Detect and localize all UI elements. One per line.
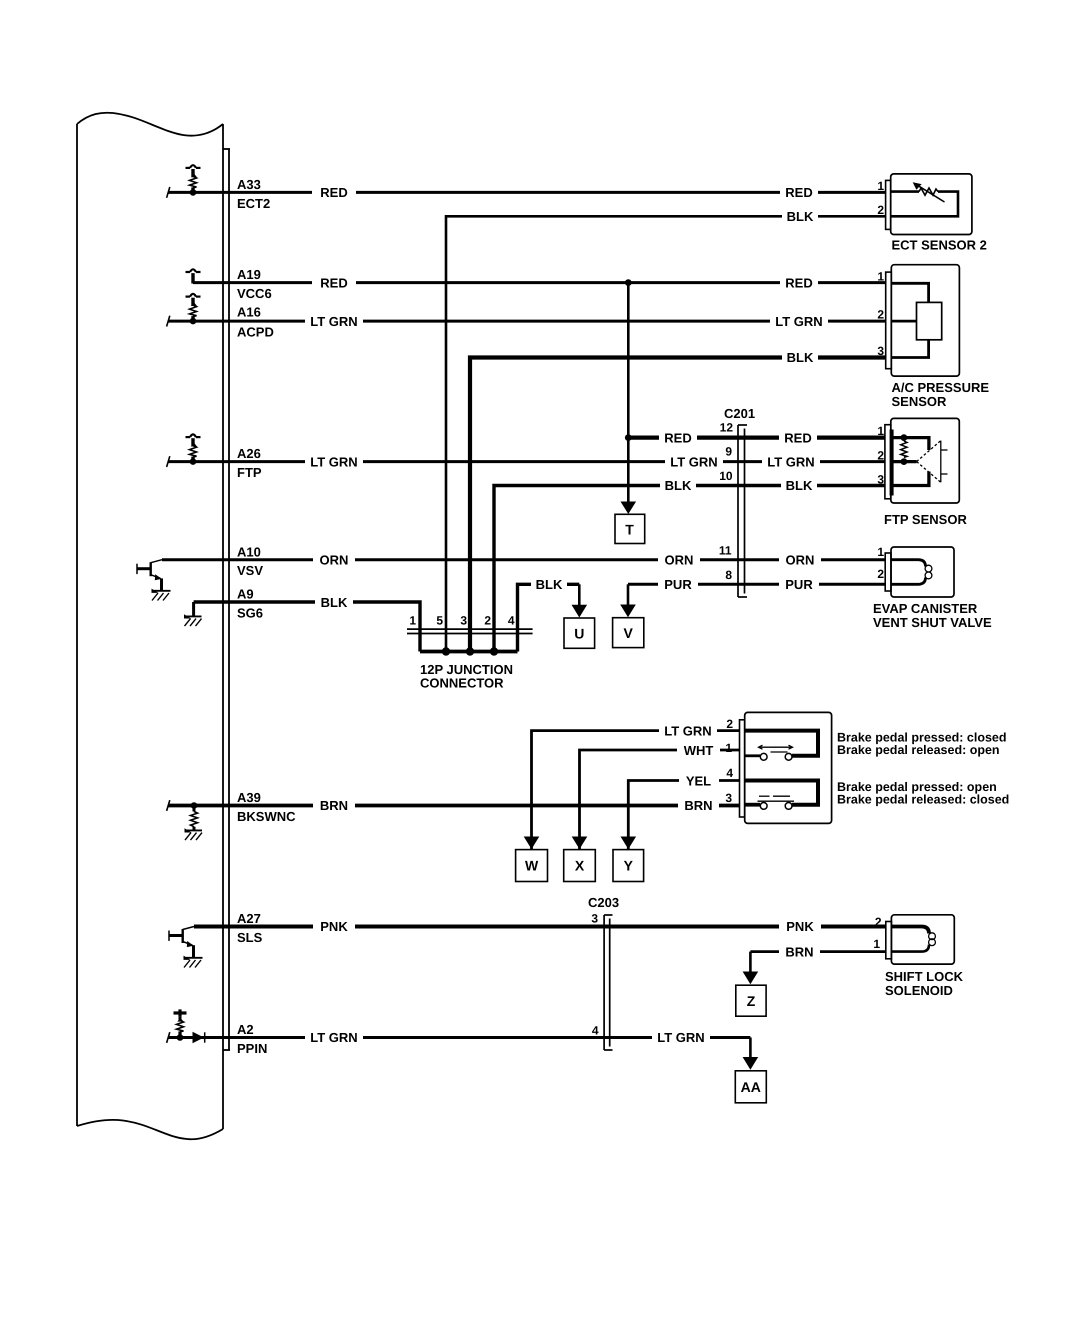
svg-text:LT GRN: LT GRN bbox=[310, 1030, 357, 1045]
EVAP CANISTER VENT SHUT VALVE body bbox=[891, 547, 954, 597]
FTP internal wire pin1 bbox=[893, 438, 929, 450]
wire label RED (left, A19) bbox=[312, 275, 356, 290]
wire label RED (left) bbox=[312, 185, 356, 200]
SHIFT LOCK SOLENOID connector bracket bbox=[886, 922, 892, 959]
svg-text:RED: RED bbox=[784, 430, 811, 445]
svg-text:PUR: PUR bbox=[785, 577, 813, 592]
wire label BLK (left of C201) bbox=[660, 478, 696, 493]
wire label WHT bbox=[677, 743, 720, 758]
wire label ORN (right of C201) bbox=[779, 552, 821, 567]
riser pin 4 of junction connector up to BLK/U bbox=[518, 584, 580, 651]
svg-text:1: 1 bbox=[877, 179, 884, 193]
wire label RED (right of C201) bbox=[779, 430, 817, 445]
arrow into Z bbox=[743, 972, 759, 985]
svg-text:1: 1 bbox=[873, 937, 880, 951]
wire label LT GRN (brake) bbox=[659, 723, 717, 738]
arrow into W bbox=[524, 837, 540, 850]
svg-text:2: 2 bbox=[877, 567, 884, 581]
wire A9 SG6 BLK row into 12P junction connector pin 1 bbox=[194, 602, 420, 652]
switch 1 contacts bbox=[760, 753, 767, 760]
wire label ORN (left of C201) bbox=[658, 552, 700, 567]
svg-text:C203: C203 bbox=[588, 895, 619, 910]
page reference box V bbox=[613, 618, 644, 648]
page reference box T bbox=[615, 514, 645, 543]
svg-text:T: T bbox=[625, 521, 634, 537]
svg-text:2: 2 bbox=[877, 449, 884, 463]
svg-text:1: 1 bbox=[725, 741, 732, 755]
wire YEL row to brake switch pin 4 bbox=[628, 781, 739, 850]
svg-text:4: 4 bbox=[592, 1024, 599, 1038]
svg-text:BLK: BLK bbox=[321, 595, 348, 610]
page reference box Z bbox=[736, 985, 766, 1016]
wire label PNK (right) bbox=[779, 919, 821, 934]
arrow into V bbox=[620, 605, 636, 618]
svg-text:4: 4 bbox=[508, 614, 515, 628]
wire label PUR (right of C201) bbox=[779, 577, 819, 592]
junction dot A16 resistor/wire bbox=[190, 318, 197, 325]
ECT SENSOR 2 connector bracket bbox=[886, 180, 891, 229]
brake switch connector bracket bbox=[740, 720, 745, 817]
svg-text:9: 9 bbox=[725, 445, 732, 459]
svg-text:LT GRN: LT GRN bbox=[310, 314, 357, 329]
wire label BRN (right) bbox=[779, 944, 820, 959]
svg-text:BLK: BLK bbox=[787, 209, 814, 224]
internal pull-up resistor at A16 bbox=[186, 294, 201, 321]
wire A33 ECT2 RED row bbox=[168, 191, 886, 194]
junction node on A19 RED wire bbox=[625, 279, 632, 286]
svg-text:ORN: ORN bbox=[320, 552, 349, 567]
page reference box X bbox=[564, 850, 596, 882]
A/C PRESSURE SENSOR connector bracket bbox=[886, 272, 892, 369]
internal pull-up resistor and diode at A2 bbox=[174, 1009, 205, 1043]
wire pin3 to element (A/C sensor) bbox=[891, 340, 928, 358]
svg-text:SHIFT LOCK: SHIFT LOCK bbox=[885, 969, 964, 984]
svg-text:2: 2 bbox=[875, 915, 882, 929]
svg-text:2: 2 bbox=[484, 614, 491, 628]
internal driver transistor at A10 bbox=[137, 560, 162, 590]
svg-text:Z: Z bbox=[747, 993, 756, 1009]
page reference box AA bbox=[735, 1071, 766, 1103]
FTP SENSOR connector bracket bbox=[885, 425, 891, 499]
svg-text:ORN: ORN bbox=[665, 552, 694, 567]
arrow into U bbox=[572, 605, 588, 618]
svg-text:ACPD: ACPD bbox=[237, 325, 274, 340]
switch 2 contacts bbox=[760, 803, 767, 810]
wire label LT GRN (mid, left of C201) bbox=[665, 454, 723, 469]
switch 2 closed bar bbox=[758, 796, 795, 801]
svg-text:FTP: FTP bbox=[237, 465, 262, 480]
svg-text:A33: A33 bbox=[237, 177, 261, 192]
internal driver transistor at A27 bbox=[169, 927, 194, 958]
wire label LT GRN (right of C203) bbox=[652, 1030, 710, 1045]
svg-text:11: 11 bbox=[719, 544, 732, 558]
svg-text:VSV: VSV bbox=[237, 563, 263, 578]
ECM/PCM box (torn-edge outline) bbox=[77, 113, 223, 1140]
svg-text:A9: A9 bbox=[237, 587, 254, 602]
svg-text:RED: RED bbox=[320, 275, 347, 290]
svg-text:RED: RED bbox=[320, 185, 347, 200]
wire A27 SLS PNK row to C203 pin 3 and shift lock solenoid pin 2 bbox=[194, 925, 886, 929]
svg-text:LT GRN: LT GRN bbox=[657, 1030, 704, 1045]
A/C PRESSURE SENSOR body bbox=[891, 265, 959, 376]
arrow into X bbox=[572, 837, 588, 850]
ECM connector face line bbox=[224, 149, 231, 1050]
wire continuation slash A16 bbox=[167, 316, 170, 327]
ground (A10 transistor emitter) bbox=[152, 589, 171, 601]
svg-text:2: 2 bbox=[877, 203, 884, 217]
svg-text:A/C PRESSURE: A/C PRESSURE bbox=[892, 380, 990, 395]
internal pull-down resistor and ground at A39 bbox=[185, 802, 203, 840]
wire pin1 to element (A/C sensor) bbox=[891, 283, 928, 302]
arrow into T bbox=[621, 502, 637, 515]
svg-text:3: 3 bbox=[725, 791, 732, 805]
svg-text:BLK: BLK bbox=[787, 350, 814, 365]
svg-text:3: 3 bbox=[591, 912, 598, 926]
FTP SENSOR body bbox=[891, 418, 960, 503]
svg-text:ECT2: ECT2 bbox=[237, 196, 270, 211]
switch 2 (normally closed) wiring bbox=[745, 781, 818, 805]
svg-text:BRN: BRN bbox=[684, 798, 712, 813]
svg-text:1: 1 bbox=[877, 545, 884, 559]
connector C201 bbox=[738, 425, 747, 597]
svg-text:BRN: BRN bbox=[785, 944, 813, 959]
switch 1 actuator arm (open) bbox=[759, 745, 793, 752]
svg-text:BLK: BLK bbox=[665, 478, 692, 493]
wire label PUR (left of C201) bbox=[658, 577, 698, 592]
wire PUR row from V to C201 pin 8 and EVAP valve pin 2 bbox=[628, 583, 885, 586]
svg-text:U: U bbox=[574, 625, 584, 641]
ECT SENSOR 2 body bbox=[891, 174, 972, 235]
svg-text:5: 5 bbox=[436, 614, 443, 628]
FTP internal wire pin3 bbox=[893, 472, 929, 486]
ground (A27 transistor emitter) bbox=[184, 956, 203, 968]
svg-text:RED: RED bbox=[664, 430, 691, 445]
svg-text:CONNECTOR: CONNECTOR bbox=[420, 676, 504, 691]
svg-text:VCC6: VCC6 bbox=[237, 286, 272, 301]
svg-text:SENSOR: SENSOR bbox=[892, 394, 948, 409]
svg-text:A2: A2 bbox=[237, 1022, 254, 1037]
wire label BLK (ECT2 row) bbox=[782, 209, 818, 224]
svg-text:V: V bbox=[624, 625, 634, 641]
svg-text:8: 8 bbox=[725, 568, 732, 582]
svg-text:1: 1 bbox=[409, 614, 416, 628]
svg-text:C201: C201 bbox=[724, 406, 755, 421]
wire label BRN (left) bbox=[313, 798, 355, 813]
FTP internal amplifier triangle bbox=[917, 441, 948, 483]
wire label BLK (to U) bbox=[531, 577, 567, 592]
svg-text:1: 1 bbox=[877, 270, 884, 284]
svg-text:3: 3 bbox=[460, 614, 467, 628]
svg-text:3: 3 bbox=[877, 473, 884, 487]
EVAP CANISTER VENT SHUT VALVE connector bracket bbox=[885, 553, 891, 591]
svg-text:RED: RED bbox=[785, 275, 812, 290]
wire continuation slash A39 bbox=[167, 800, 170, 811]
svg-text:12: 12 bbox=[720, 421, 734, 435]
elbow down to U bbox=[578, 584, 581, 606]
wire BLK row to C201 pin 10 and FTP pin 3 bbox=[494, 486, 885, 652]
wire A/C BLK row (elbow to sensor pin 3) bbox=[470, 358, 886, 652]
connector C203 bbox=[604, 915, 612, 1050]
wire continuation slash A26 bbox=[167, 456, 170, 467]
svg-text:VENT SHUT VALVE: VENT SHUT VALVE bbox=[873, 615, 992, 630]
svg-text:BLK: BLK bbox=[786, 478, 813, 493]
arrow into AA bbox=[743, 1057, 759, 1070]
wire continuation slash A2 bbox=[167, 1032, 170, 1043]
junction dot A26 resistor/wire bbox=[190, 458, 197, 465]
elbow down to AA bbox=[749, 1038, 752, 1059]
wire WHT row to brake switch pin 1 bbox=[580, 750, 740, 849]
arrow into Y bbox=[621, 837, 637, 850]
svg-text:2: 2 bbox=[726, 717, 733, 731]
12P junction connector bar bbox=[407, 629, 533, 633]
page reference box Y bbox=[613, 850, 644, 882]
svg-text:A26: A26 bbox=[237, 446, 261, 461]
svg-text:10: 10 bbox=[719, 469, 733, 483]
wire label LT GRN (right of C201) bbox=[762, 454, 820, 469]
svg-text:LT GRN: LT GRN bbox=[670, 454, 717, 469]
wire RED to FTP pin 1 bbox=[628, 436, 885, 440]
wire label LT GRN (left, A26) bbox=[305, 454, 363, 469]
svg-text:FTP SENSOR: FTP SENSOR bbox=[884, 512, 967, 527]
svg-text:A27: A27 bbox=[237, 911, 261, 926]
svg-text:A39: A39 bbox=[237, 790, 261, 805]
svg-text:SLS: SLS bbox=[237, 930, 263, 945]
svg-text:ORN: ORN bbox=[786, 552, 815, 567]
svg-text:EVAP CANISTER: EVAP CANISTER bbox=[873, 601, 978, 616]
svg-text:LT GRN: LT GRN bbox=[310, 454, 357, 469]
svg-text:PNK: PNK bbox=[320, 919, 348, 934]
FTP internal resistor bbox=[901, 434, 908, 441]
svg-text:BLK: BLK bbox=[536, 577, 563, 592]
svg-text:LT GRN: LT GRN bbox=[767, 454, 814, 469]
wire label BLK (right of C201) bbox=[781, 478, 817, 493]
wire label BLK (A/C row) bbox=[782, 350, 818, 365]
svg-text:A10: A10 bbox=[237, 544, 261, 559]
svg-text:PPIN: PPIN bbox=[237, 1041, 267, 1056]
elbow down to Z bbox=[749, 952, 752, 973]
svg-text:W: W bbox=[525, 858, 539, 874]
svg-text:PNK: PNK bbox=[786, 919, 814, 934]
wire continuation slash A33 bbox=[167, 187, 170, 198]
page reference box W bbox=[516, 850, 548, 882]
wire BRN row from Z to shift lock solenoid pin 1 bbox=[750, 950, 885, 953]
internal pull-up resistor at A33 bbox=[186, 165, 201, 192]
svg-text:2: 2 bbox=[877, 308, 884, 322]
thermistor element inside ECT sensor 2 bbox=[891, 182, 958, 216]
wire A2 PPIN LT GRN row to C203 pin 4 bbox=[168, 1036, 750, 1039]
SHIFT LOCK SOLENOID body bbox=[891, 915, 954, 964]
junction dot A33 resistor/wire bbox=[190, 189, 197, 196]
page reference box U bbox=[564, 618, 595, 648]
svg-text:1: 1 bbox=[877, 424, 884, 438]
internal ground at A9 bbox=[184, 602, 202, 626]
internal pull-up resistor at A26 bbox=[186, 434, 201, 461]
FTP internal connector face bar bbox=[890, 430, 894, 496]
wire label RED (right, A19) bbox=[780, 275, 818, 290]
wire LT GRN row to brake switch pin 2 bbox=[532, 731, 740, 849]
svg-text:Y: Y bbox=[624, 858, 634, 874]
svg-text:Brake pedal released: open: Brake pedal released: open bbox=[837, 743, 1000, 757]
wire A16 ACPD LT GRN row bbox=[168, 320, 886, 323]
brake pedal position switch body bbox=[745, 712, 832, 823]
svg-text:SOLENOID: SOLENOID bbox=[885, 983, 953, 998]
junction dot RED branch bbox=[625, 434, 632, 441]
wire label RED (right) bbox=[780, 185, 818, 200]
svg-text:4: 4 bbox=[726, 766, 733, 780]
wire A26 FTP LT GRN row (to C201 pin 9 and FTP sensor pin 2) bbox=[168, 460, 885, 463]
sensor element inside A/C pressure sensor bbox=[917, 302, 942, 339]
elbow down to V bbox=[627, 584, 630, 606]
svg-text:WHT: WHT bbox=[684, 743, 714, 758]
wire A19 VCC6 RED row bbox=[193, 281, 886, 284]
svg-text:LT GRN: LT GRN bbox=[775, 314, 822, 329]
svg-text:BRN: BRN bbox=[320, 798, 348, 813]
svg-text:PUR: PUR bbox=[664, 577, 692, 592]
pin label A33 bbox=[237, 177, 261, 192]
svg-text:YEL: YEL bbox=[686, 773, 711, 788]
12P junction connector bottom bus bbox=[420, 650, 518, 654]
wire A10 VSV ORN row (to C201 pin 11 and EVAP valve pin 1) bbox=[162, 558, 885, 561]
svg-text:RED: RED bbox=[785, 185, 812, 200]
wire label LT GRN (left, A2) bbox=[305, 1030, 363, 1045]
solenoid coil inside EVAP valve bbox=[891, 560, 926, 567]
wire pin2 to element (A/C sensor) bbox=[891, 320, 916, 323]
svg-text:A19: A19 bbox=[237, 267, 261, 282]
wire label LT GRN (right) bbox=[770, 314, 828, 329]
solenoid coil inside shift lock solenoid bbox=[891, 927, 929, 934]
svg-text:ECT SENSOR 2: ECT SENSOR 2 bbox=[892, 238, 987, 253]
svg-text:Brake pedal released: closed: Brake pedal released: closed bbox=[837, 793, 1009, 807]
wire ECT2 BLK return (elbow to sensor pin 2) bbox=[446, 216, 886, 651]
svg-text:BKSWNC: BKSWNC bbox=[237, 809, 296, 824]
junction bus dots bbox=[442, 647, 450, 655]
wire label BLK (A9 row) bbox=[315, 595, 353, 610]
svg-text:AA: AA bbox=[741, 1079, 761, 1095]
switch 1 (stop lamp, normally open) wiring bbox=[745, 731, 818, 756]
wire label RED (left of C201) bbox=[659, 430, 697, 445]
wire label BRN (mid) bbox=[678, 798, 719, 813]
wire RED branch from A19 node down to T and to C201 pin 12 bbox=[627, 283, 630, 503]
svg-text:SG6: SG6 bbox=[237, 605, 263, 620]
internal voltage source symbol at A19 bbox=[186, 269, 201, 283]
wire label PNK (left) bbox=[313, 919, 355, 934]
wire label LT GRN (left) bbox=[305, 314, 363, 329]
svg-text:LT GRN: LT GRN bbox=[664, 723, 711, 738]
svg-text:X: X bbox=[575, 858, 585, 874]
svg-text:A16: A16 bbox=[237, 305, 261, 320]
FTP internal wire pin2 to amplifier apex bbox=[893, 460, 917, 463]
wire A39 BKSWNC BRN row to brake switch pin 3 bbox=[168, 804, 740, 808]
wire label ORN (left) bbox=[313, 552, 355, 567]
wire label YEL bbox=[679, 773, 719, 788]
